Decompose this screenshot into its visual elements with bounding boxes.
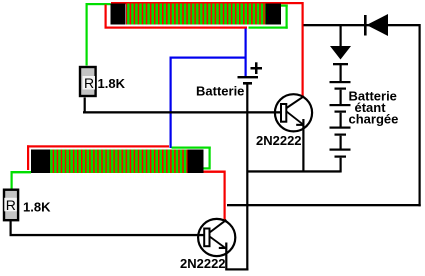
wire blue down to L2 junction xyxy=(170,57,172,149)
wire red L1 left wrap vertical xyxy=(105,5,107,29)
svg-text:2N2222: 2N2222 xyxy=(180,256,226,271)
wire red Q1 collector vertical xyxy=(302,2,304,97)
diode D1 xyxy=(367,14,389,36)
coil L1 core right end xyxy=(266,4,282,25)
wire red Q2 collector vertical xyxy=(224,171,226,220)
battery B2 cell2 long plate xyxy=(330,104,351,106)
wire green to R2 xyxy=(11,171,13,189)
wire green L2 right wrap jog xyxy=(204,167,209,169)
wire Q1 base horizontal xyxy=(83,111,281,113)
wire cell1 to cell2 xyxy=(340,90,342,104)
svg-text:chargée: chargée xyxy=(349,112,399,127)
transistor Q2 xyxy=(198,219,235,256)
wire branch to D2 xyxy=(340,26,342,46)
svg-text:1.8K: 1.8K xyxy=(23,200,51,215)
diode D2 xyxy=(330,46,351,60)
svg-text:R: R xyxy=(84,75,94,91)
wire red top (L1 terminal to Q1 collector) xyxy=(111,2,304,4)
wire blue horizontal branch xyxy=(170,57,247,59)
battery B2 cell4 short plate xyxy=(335,156,347,158)
wire top charging line xyxy=(304,24,421,26)
wire green L1 left top xyxy=(86,3,111,5)
coil L1 core left end xyxy=(111,4,126,25)
wire junction horizontal xyxy=(247,170,341,172)
coil L2 core right end xyxy=(188,150,204,174)
svg-text:Batterie: Batterie xyxy=(196,84,244,99)
wire green L1 bottom xyxy=(249,27,288,29)
wire R1 bottom stub xyxy=(84,98,86,114)
wire green L2 left bottom xyxy=(11,171,32,173)
battery B2 cell2 short plate xyxy=(335,111,347,113)
svg-text:R: R xyxy=(6,197,16,213)
wire green L1 right wrap vertical xyxy=(286,5,288,29)
diode D1 cathode bar xyxy=(364,15,367,36)
wire bottom long horizontal xyxy=(227,204,421,206)
wire D2 to cell1 xyxy=(340,65,342,81)
wire right edge vertical xyxy=(419,24,421,206)
wire R2 bottom stub xyxy=(10,221,12,236)
battery B1 plus plate xyxy=(238,76,259,78)
battery B1 minus plate xyxy=(243,82,252,85)
diode D2 cathode bar xyxy=(333,63,348,65)
wire red L2 right bottom xyxy=(204,171,226,173)
plus sign xyxy=(251,62,263,74)
wire Q2 base horizontal xyxy=(10,234,205,236)
coil L1 winding xyxy=(126,4,266,25)
resistor R1 xyxy=(80,67,96,96)
transistor Q1 xyxy=(275,94,312,131)
wire green to R1 xyxy=(86,3,88,66)
wire red L2 left wrap vertical xyxy=(27,145,29,170)
battery B2 cell1 short plate xyxy=(335,88,347,90)
svg-text:1.8K: 1.8K xyxy=(98,76,126,91)
svg-text:2N2222: 2N2222 xyxy=(256,133,302,148)
battery B2 cell4 long plate xyxy=(330,149,351,151)
wire red top L2 xyxy=(27,145,169,147)
battery B2 cell3 short plate xyxy=(335,134,347,136)
wire green L2 top xyxy=(172,147,211,149)
wire green L2 right wrap vertical xyxy=(209,147,211,170)
wire red L1 bottom xyxy=(105,27,248,29)
wire Q2 emitter bottom horizontal xyxy=(226,268,249,270)
wire cell2 to cell3 xyxy=(340,113,342,127)
coil L2 winding xyxy=(50,150,188,174)
label Batterie etant chargee xyxy=(349,89,399,127)
resistor R2 xyxy=(4,190,18,221)
wire green L1 right wrap top jog xyxy=(281,5,288,7)
wire cell3 to cell4 xyxy=(340,136,342,149)
battery B2 cell3 long plate xyxy=(330,127,351,129)
coil L2 core left end xyxy=(31,150,50,174)
battery B2 cell1 long plate xyxy=(330,81,351,83)
wire blue L1 to battery plus xyxy=(245,29,247,77)
wire battery minus down xyxy=(246,85,248,271)
wire cell4 down xyxy=(340,158,342,173)
wire Q1 emitter down xyxy=(302,119,304,173)
wire Q2 emitter down xyxy=(225,243,227,271)
